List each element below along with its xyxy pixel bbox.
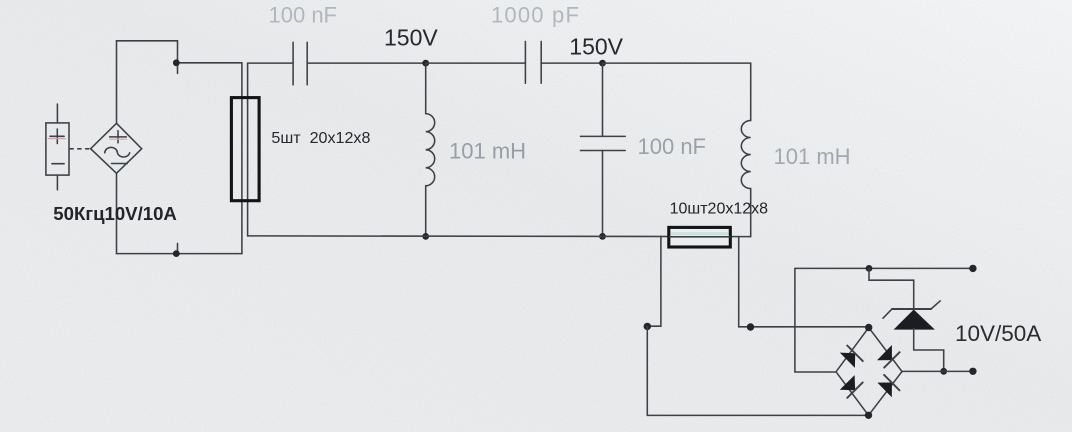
wire output plus left vertical	[794, 268, 796, 372]
node bridge bottom	[865, 412, 872, 419]
diode VD2 top-right	[877, 345, 900, 368]
wire bridge bottom feed	[647, 414, 868, 416]
node bridge top	[865, 324, 872, 331]
capacitor C3 100nF vertical	[581, 63, 626, 236]
wire primary bottom stub	[177, 243, 179, 253]
wire primary winding vertical	[241, 63, 243, 254]
wire primary top horizontal	[117, 40, 178, 42]
node primary bottom terminal	[173, 250, 180, 257]
wire zener lower link	[914, 329, 944, 372]
node output left corner	[644, 323, 651, 330]
wire secondary winding vertical	[247, 63, 249, 236]
wire bottom rail	[248, 235, 751, 238]
svg-text:50Кгц10V/10A: 50Кгц10V/10A	[53, 203, 177, 224]
wire through ferrite T2	[669, 236, 731, 238]
wire top rail mid3	[541, 62, 602, 64]
wire bridge top feed	[739, 326, 869, 328]
diode VD1 top-left	[840, 346, 863, 368]
node bottom under C3	[599, 233, 606, 240]
wire output left vertical	[646, 326, 648, 415]
wire primary top stub	[177, 41, 179, 74]
svg-text:10шт20x12x8: 10шт20x12x8	[670, 200, 769, 217]
node terminal on bridge top feed	[747, 323, 754, 330]
svg-text:101 mH: 101 mH	[774, 144, 851, 169]
node A 150V	[422, 60, 429, 67]
source G1 50kHz	[91, 123, 142, 173]
node terminal output bottom	[969, 368, 976, 375]
wire top rail right	[603, 62, 751, 64]
svg-text:1000 pF: 1000 pF	[491, 3, 580, 28]
wire zener upper link	[869, 268, 914, 309]
capacitor C1 100nF	[293, 42, 307, 85]
node bottom under L1	[422, 233, 429, 240]
battery B1	[46, 104, 69, 190]
svg-text:100 nF: 100 nF	[638, 134, 707, 159]
wire primary winding top	[176, 62, 242, 64]
wire source top lead	[116, 41, 118, 124]
wire primary bottom horizontal	[117, 253, 242, 255]
wire output drop left	[647, 236, 661, 326]
wire top rail mid1	[307, 62, 426, 64]
transformer core T2 ferrite	[669, 227, 731, 247]
node B 150V	[599, 60, 606, 67]
svg-text:150V: 150V	[384, 25, 438, 51]
capacitor C2 1000pF	[525, 41, 541, 83]
svg-text:150V: 150V	[569, 34, 623, 60]
transformer core T1 ferrite	[231, 98, 259, 201]
inductor L2 101mH	[741, 63, 750, 237]
wire dashed link battery to source	[70, 148, 90, 150]
diode bridge edges	[836, 328, 902, 416]
wire output drop mid	[738, 237, 740, 327]
node zener bottom junction	[940, 368, 947, 375]
wire bridge right to terminal	[902, 370, 973, 372]
inductor L1 101mH	[426, 63, 435, 236]
node primary top terminal	[173, 59, 180, 66]
svg-text:10V/50A: 10V/50A	[955, 321, 1041, 346]
svg-text:100 nF: 100 nF	[269, 3, 338, 28]
diode VD3 bottom-left	[840, 375, 863, 398]
node zener tap	[866, 265, 873, 272]
wire top rail left	[248, 62, 294, 64]
svg-text:101 mH: 101 mH	[449, 139, 526, 164]
node terminal output top	[969, 265, 976, 272]
zener diode VD5	[883, 301, 940, 329]
svg-text:5шт 20x12x8: 5шт 20x12x8	[271, 129, 370, 147]
wire source bottom lead	[116, 173, 118, 253]
wire bridge left to plus	[795, 371, 836, 373]
wire output top rail	[795, 267, 973, 269]
diode VD4 bottom-right	[877, 375, 899, 397]
wire top rail mid2	[426, 62, 526, 64]
